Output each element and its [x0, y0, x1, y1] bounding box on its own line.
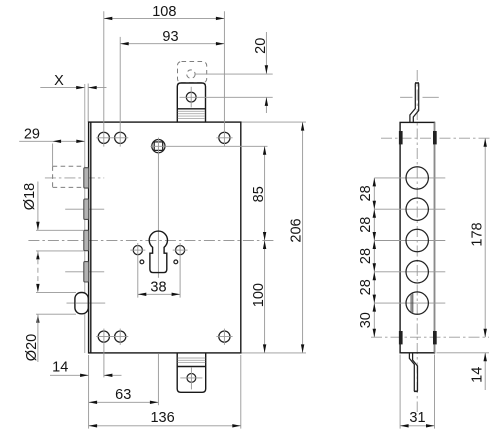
fixing lug top-right — [433, 131, 437, 144]
fixing hole top-right — [219, 132, 230, 143]
roller hole 5 — [406, 292, 428, 314]
roller crosshair row4 — [374, 271, 445, 273]
extension side bar bottom to 14 dim — [437, 352, 490, 354]
latch crosshair inside capsule — [76, 302, 88, 304]
svg-text:63: 63 — [115, 387, 131, 403]
fixing hole top-left B — [115, 132, 126, 143]
dim 29 line — [19, 140, 85, 142]
crosshair top-right hole — [216, 137, 232, 139]
dim X line left tail — [40, 87, 84, 89]
roller hole 3 — [406, 229, 428, 251]
crosshair bottom-right hole vertical — [223, 329, 225, 345]
side bar right edge light — [434, 122, 436, 352]
dim 93 line — [120, 43, 224, 45]
bottom tab hatch lines — [178, 358, 206, 362]
roller hole 2 — [406, 198, 428, 220]
dim 28 chain line — [373, 178, 375, 337]
crosshair bolt row 2 — [65, 208, 104, 210]
latch D20 capsule — [75, 293, 88, 314]
side view centerline lower fixing row — [371, 336, 489, 338]
bottom tab hole — [187, 374, 196, 383]
svg-text:38: 38 — [150, 279, 166, 295]
dim D18 lower arrow — [36, 251, 39, 260]
top tab hatch lines — [178, 111, 205, 118]
leader from dashed hole to 20 dim — [195, 73, 273, 75]
dim 136 line — [89, 425, 241, 427]
deadbolt D18 row1 cross-section — [84, 168, 89, 188]
top tab hole horizontal crosshair and leader to 20 dim — [180, 96, 273, 98]
rod chords in roller 5 — [410, 294, 412, 312]
svg-text:206: 206 — [289, 218, 305, 242]
extension line 29 dim — [52, 144, 54, 167]
dim D20 lower arrow and tail — [36, 314, 39, 323]
extension cylinder hole left to 38 dim — [137, 243, 139, 298]
bottom rod inner line — [413, 353, 418, 391]
extension body bottom-right to 206 dim — [242, 352, 307, 354]
crosshair top-left holes — [96, 137, 128, 139]
dashed thrown-bolt outline tip — [52, 166, 54, 187]
lock case body — [89, 122, 241, 353]
fixing lug bottom-right — [433, 331, 437, 344]
dim D20 upper arrow — [36, 284, 39, 293]
dashed alternate tab hole — [187, 70, 195, 78]
svg-text:28: 28 — [358, 217, 374, 233]
deadbolt D18 row4 cross-section — [84, 262, 89, 282]
svg-text:29: 29 — [24, 126, 40, 142]
svg-text:85: 85 — [251, 186, 267, 202]
crosshair bottom-left hole B vertical — [119, 329, 121, 345]
side view centerline vertical — [416, 70, 418, 412]
fixing lug bottom-left — [399, 331, 403, 344]
extension cylinder axis to 63 dim — [157, 354, 159, 405]
svg-text:30: 30 — [358, 312, 374, 328]
dim 20 lower tail and arrow — [265, 97, 267, 113]
extension body bottom-right to 136 dim — [240, 355, 242, 429]
top tab hole — [186, 92, 196, 102]
crosshair latch row 5 — [67, 302, 106, 304]
spindle square follower square — [154, 142, 163, 151]
extension side bar right to 31 dim — [434, 355, 436, 429]
fixing lug top-left — [399, 131, 403, 144]
centerline bolt row 1 — [45, 177, 104, 179]
crosshair bottom-right hole — [216, 336, 232, 338]
pin hole small right — [174, 260, 178, 264]
svg-text:31: 31 — [409, 410, 425, 426]
dashed thrown-bolt outline top — [53, 165, 85, 167]
fixing hole bottom-right — [219, 331, 230, 342]
top tab hatch box line — [177, 108, 205, 110]
dim 206 line — [302, 122, 304, 353]
extension line X dim at case edge — [87, 84, 89, 123]
top tab hole vertical crosshair — [190, 87, 192, 108]
centerline cylinder axis horizontal — [28, 240, 275, 242]
extension line 93 dim left / hole B axis — [119, 37, 121, 147]
dim 38 line — [138, 293, 180, 295]
faceplate front line — [84, 84, 86, 353]
fixing hole top-left A — [98, 132, 109, 143]
svg-text:93: 93 — [162, 29, 178, 45]
svg-text:28: 28 — [358, 185, 374, 201]
extension side bar left to 31 dim — [399, 355, 401, 429]
crosshair bolt row 4 — [65, 271, 104, 273]
svg-text:28: 28 — [358, 248, 374, 264]
case left edge inner double line — [90, 122, 92, 353]
extension body top-right to 206 dim — [242, 121, 307, 123]
euro cylinder keyhole profile — [149, 231, 167, 273]
svg-text:136: 136 — [150, 410, 174, 426]
side leader from tab hole — [400, 96, 412, 98]
crosshair cylinder hole right — [173, 249, 188, 251]
side view centerline upper fixing row — [381, 137, 491, 139]
spindle horizontal crosshair leader to 85 dim — [150, 145, 267, 147]
bottom tab hatch box line — [177, 366, 206, 368]
dim 14 right tail and arrow — [484, 353, 486, 390]
cylinder fixing hole left — [133, 246, 142, 255]
bottom fixing tab — [177, 353, 206, 392]
pin hole small left — [140, 260, 144, 264]
crosshair bottom-left holes — [96, 336, 128, 338]
svg-text:100: 100 — [251, 283, 267, 307]
svg-text:X: X — [54, 73, 64, 89]
svg-text:28: 28 — [358, 279, 374, 295]
cylinder fixing hole right — [176, 246, 185, 255]
extension line 108 dim left / hole A axis — [103, 11, 105, 146]
svg-text:Ø18: Ø18 — [22, 183, 38, 210]
roller crosshair row2 — [374, 208, 445, 210]
svg-text:14: 14 — [469, 367, 485, 383]
deadbolt D18 row3 cross-section — [84, 230, 89, 250]
fixing hole bottom-left B — [115, 331, 126, 342]
dim 63 line — [89, 401, 159, 403]
top rod cap — [415, 82, 419, 84]
extension cylinder hole right to 38 dim — [179, 243, 181, 298]
roller crosshair row3 — [374, 240, 445, 242]
top rod inner line — [413, 83, 418, 122]
dashed thrown-bolt outline bottom — [53, 186, 85, 188]
dim 14 left line — [50, 374, 89, 376]
dim D18 boundary lines — [36, 229, 84, 231]
extension line 108-93 right / top-right hole axis — [223, 11, 225, 146]
roller crosshair row5 — [374, 302, 445, 304]
svg-text:Ø20: Ø20 — [24, 334, 40, 361]
dim 85-100 line — [264, 146, 266, 353]
roller hole 4 — [406, 261, 428, 283]
bottom rod cap — [414, 390, 418, 392]
deadbolt D18 row2 cross-section — [84, 199, 89, 219]
bottom rod outer line — [409, 353, 414, 391]
top rod outer line — [410, 83, 415, 122]
roller crosshair row1 — [374, 177, 445, 179]
fixing hole bottom-left A — [98, 331, 109, 342]
svg-text:20: 20 — [253, 38, 269, 54]
dim D18 to D20 connecting line — [37, 251, 39, 293]
dim X right tail — [88, 87, 106, 89]
spindle square follower circle — [152, 140, 165, 153]
crosshair cylinder hole left — [130, 249, 145, 251]
extension bottom-left hole A to 14 dim — [103, 329, 105, 378]
svg-text:108: 108 — [152, 4, 176, 20]
dim 178 line — [484, 138, 486, 337]
side case bar — [400, 122, 434, 352]
spindle to cylinder axis light vertical — [157, 153, 159, 278]
bottom tab hole horizontal crosshair — [180, 377, 202, 379]
dim 31 line — [400, 425, 434, 427]
roller hole 1 — [406, 167, 428, 189]
extension body bottom-left to lower dims — [88, 355, 90, 429]
dim D20 boundary lines — [36, 291, 76, 293]
dim 20 upper tail and arrow — [265, 32, 267, 74]
bottom tab hole vertical crosshair — [190, 367, 192, 389]
dim 108 line — [104, 17, 225, 19]
top fixing tab dashed alternate position — [178, 62, 207, 83]
dim D18 upper extension and arrow — [37, 182, 39, 231]
svg-text:14: 14 — [52, 360, 68, 376]
top fixing tab — [177, 83, 205, 122]
spindle vertical crosshair — [157, 138, 159, 155]
svg-text:178: 178 — [469, 222, 485, 246]
